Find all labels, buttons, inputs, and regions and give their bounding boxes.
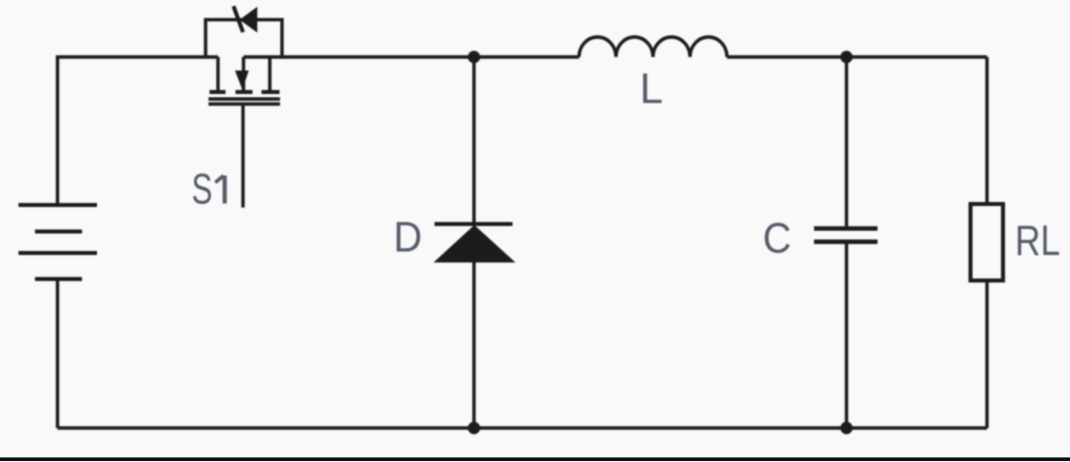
svg-text:RL: RL: [1015, 217, 1060, 265]
junction dot: bottom rail at diode: [468, 422, 480, 434]
MOSFET S1 body arrow (points down, n-channel): [235, 71, 249, 90]
inductor L: [579, 37, 727, 57]
battery plate: top long (positive): [19, 203, 98, 207]
capacitor C bottom plate: [814, 240, 878, 245]
MOSFET S1 gate line: [209, 102, 281, 105]
body diode triangle (points left): [240, 7, 258, 33]
bottom page rule: [0, 457, 1070, 461]
diode D triangle (anode, points up): [434, 225, 516, 263]
wire: switch node down to diode D cathode: [472, 57, 475, 224]
MOSFET S1 channel line: [209, 97, 281, 100]
diode D cathode bar: [435, 222, 513, 226]
wire: gate lead of S1: [241, 105, 244, 208]
wire: output node down to capacitor C top plate: [845, 57, 848, 228]
wire: bottom rail (ground return): [58, 426, 988, 429]
wire: inductor right end to top-right corner: [727, 55, 987, 58]
battery plate: bottom short (negative): [35, 277, 82, 281]
battery plate: lower long (positive): [19, 251, 98, 255]
wire: battery negative down to bottom rail: [56, 279, 59, 428]
battery plate: upper short (negative): [35, 230, 82, 234]
junction dot: output node (top of capacitor): [840, 51, 852, 63]
svg-text:S: S: [192, 165, 213, 213]
svg-text:C: C: [763, 214, 792, 262]
wire: resistor RL to bottom rail: [985, 281, 988, 429]
wire: top rail from MOSFET source to inductor left end: [244, 55, 580, 58]
wire: diode D anode down to bottom rail: [472, 261, 475, 428]
wire: battery positive to MOSFET drain (left rail + top-left segment): [58, 57, 219, 205]
body diode slanted cathode bar: [234, 6, 244, 32]
wire: top-right corner down to load resistor RL: [985, 57, 988, 204]
body diode loop wiring of S1: [206, 20, 282, 57]
MOSFET S1 body stub: [236, 57, 253, 92]
junction dot: bottom rail at capacitor: [840, 422, 852, 434]
svg-text:D: D: [394, 213, 423, 261]
junction dot: switch node (top of diode): [468, 51, 480, 63]
svg-text:L: L: [640, 64, 663, 112]
capacitor C top plate: [814, 226, 878, 231]
label S1: [192, 165, 225, 213]
MOSFET S1 drain stub with contact bar: [210, 57, 226, 92]
resistor RL body: [971, 204, 1004, 281]
MOSFET S1 source stub with contact bar: [262, 57, 280, 92]
wire: capacitor C bottom plate down to bottom rail: [845, 242, 848, 428]
